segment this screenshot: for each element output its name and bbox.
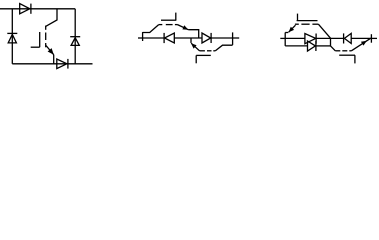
wire top [0, 8, 75, 10]
IGBT Q4 channel bar (dashed) [295, 23, 319, 25]
wire right stub [233, 37, 240, 39]
wire lower branch (left segment) [285, 45, 307, 47]
IGBT Q1 gate lead [31, 46, 40, 48]
IGBT Q5 gate bar [339, 54, 355, 56]
diode D6 (points right) [202, 33, 211, 43]
node bar left [284, 33, 286, 46]
wire upper branch (middle segment) [316, 37, 344, 39]
wire upper branch (right segment) [351, 37, 371, 39]
IGBT Q4 gate bar [297, 20, 318, 22]
IGBT Q5 channel bar (dashed) [335, 50, 351, 52]
wire main (right segment) [211, 37, 233, 39]
diode D7 (points right) [305, 34, 316, 44]
IGBT Q1 collector lead [45, 9, 57, 27]
wire lower branch (right segment) [316, 45, 331, 47]
wire main (left segment) [143, 37, 165, 39]
wire left stub [280, 37, 285, 39]
diode D5 (points left) [164, 33, 174, 43]
IGBT Q5 gate lead [354, 55, 356, 63]
wire upper branch (left segment) [285, 37, 305, 39]
IGBT Q1 channel bar (dashed) [45, 26, 47, 48]
IGBT Q5 emitter lead with arrow [351, 38, 370, 51]
IGBT Q5 collector lead [331, 46, 336, 51]
IGBT Q3 gate bar [196, 54, 211, 56]
IGBT Q1 gate bar [39, 32, 41, 47]
wire riser between branches [330, 38, 332, 46]
node bar right [370, 34, 372, 43]
IGBT Q4 emitter lead with arrow [285, 25, 295, 32]
diode D1 top [20, 4, 31, 14]
diode D3 right [70, 37, 80, 46]
IGBT Q4 gate lead [297, 14, 299, 21]
diode D4 bottom [57, 59, 68, 69]
IGBT Q4 collector lead [318, 24, 330, 38]
diode D9 (points right) [308, 41, 316, 51]
wire right stub [371, 37, 377, 39]
IGBT Q3 channel bar (dashed) [200, 50, 216, 52]
IGBT Q2 collector lead [143, 25, 159, 33]
wire bottom [12, 63, 92, 65]
diode D8 (points left) [344, 33, 352, 43]
wire main (middle segment) [174, 37, 202, 39]
IGBT Q3 emitter lead with arrow [191, 38, 200, 51]
diode D2 left [7, 33, 17, 43]
IGBT Q2 emitter lead with arrow [178, 25, 199, 38]
IGBT Q3 gate lead [195, 55, 197, 63]
wire left stub [138, 37, 143, 39]
wire right side [74, 9, 76, 64]
IGBT Q2 gate bar [161, 19, 176, 21]
IGBT Q2 channel bar (dashed) [159, 24, 178, 26]
node bar left [142, 32, 144, 41]
node bar right [232, 32, 234, 45]
IGBT Q2 gate lead [175, 13, 177, 21]
wire left side [11, 9, 13, 64]
IGBT Q1 emitter lead with arrow [46, 46, 54, 64]
IGBT Q3 collector lead [215, 45, 232, 51]
